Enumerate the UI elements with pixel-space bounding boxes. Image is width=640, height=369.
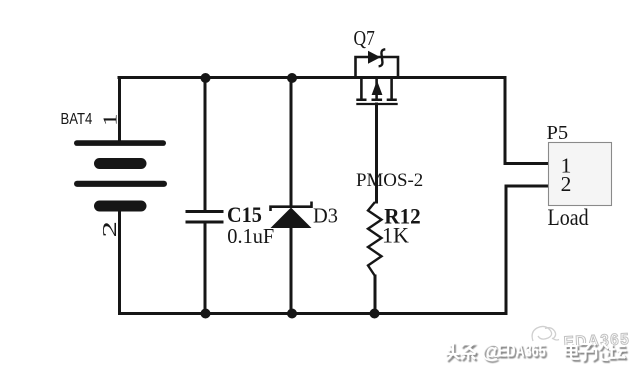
svg-text:1: 1 <box>99 114 121 126</box>
channel bar middle <box>372 99 383 102</box>
battery BAT4 <box>74 140 167 211</box>
battery plate 2 (short thick) <box>94 158 147 169</box>
wire right column top (to P5 pin1) <box>505 78 548 164</box>
junction dot bottom rail resistor <box>370 309 380 319</box>
watermark squirrel scribble <box>532 326 559 341</box>
CJK char 论 <box>592 343 609 360</box>
capacitor C15 plates <box>186 212 224 223</box>
svg-text:2: 2 <box>98 221 120 237</box>
gate line <box>356 103 397 105</box>
bulk stub <box>375 78 378 99</box>
svg-text:EDA365: EDA365 <box>498 342 546 362</box>
body diode triangle <box>368 51 381 64</box>
junction dot bottom rail diode <box>287 309 297 319</box>
svg-text:0.1uF: 0.1uF <box>227 226 274 248</box>
channel bar right <box>387 99 397 102</box>
svg-text:Q7: Q7 <box>354 27 375 50</box>
channel bar left <box>356 99 366 102</box>
wire left column (battery bottom lead) <box>118 209 121 314</box>
wire PMOS gate lead down to resistor <box>375 104 378 202</box>
diode triangle <box>271 208 312 229</box>
body diode curved cathode <box>379 49 386 66</box>
battery plate 1 (long) <box>74 140 166 146</box>
capacitor plate bottom <box>186 221 224 224</box>
junction dot bottom rail capacitor <box>201 309 211 319</box>
drain stub <box>390 78 393 99</box>
svg-text:BAT4: BAT4 <box>61 111 93 128</box>
body diode loop <box>356 57 399 78</box>
svg-text:D3: D3 <box>313 203 338 228</box>
wire right column bottom (from P5 pin2) <box>506 186 548 314</box>
CJK char 坛 <box>609 344 627 358</box>
wire left column (battery top lead) <box>118 78 121 142</box>
CJK char 条 <box>461 343 476 361</box>
CJK char 电 <box>566 343 579 359</box>
svg-text:2: 2 <box>561 172 572 196</box>
junction dot top rail diode <box>287 73 297 83</box>
watermark caption group (white with gray shadow) <box>446 340 627 363</box>
svg-text:1K: 1K <box>382 223 409 248</box>
wire capacitor bottom lead <box>204 223 207 314</box>
bulk arrow <box>372 81 383 96</box>
wire top rail <box>119 76 505 79</box>
svg-text:P5: P5 <box>547 122 569 144</box>
svg-text:Load: Load <box>548 205 589 231</box>
transistor Q7 (PMOS with body diode) <box>356 49 399 104</box>
battery plate 4 (short thick) <box>94 201 147 212</box>
svg-text:PMOS-2: PMOS-2 <box>356 170 423 191</box>
diode cathode bar with zener hooks <box>271 202 312 212</box>
resistor R12 <box>368 202 382 276</box>
source stub <box>360 78 363 99</box>
wire capacitor top lead <box>204 78 207 211</box>
zener diode D3 <box>271 202 312 229</box>
svg-text:EDA365: EDA365 <box>563 331 630 352</box>
connector P5 box <box>549 143 612 206</box>
wire diode bottom lead <box>290 228 293 314</box>
CJK char 头 <box>446 343 460 361</box>
wire resistor bottom lead <box>374 276 377 314</box>
CJK char 子 <box>578 344 594 360</box>
capacitor plate top <box>186 210 224 213</box>
svg-text:C15: C15 <box>227 202 262 227</box>
wire bottom rail <box>120 312 507 315</box>
battery plate 3 (long) <box>74 181 167 187</box>
wire diode top lead <box>290 78 293 207</box>
junction dot top rail capacitor <box>201 73 211 83</box>
